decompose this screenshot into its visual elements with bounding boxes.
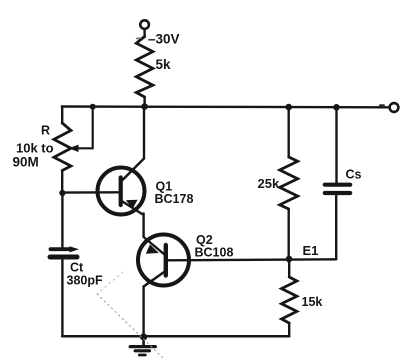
wire Cs to base wire bbox=[335, 195, 337, 259]
wire 5k to rail bbox=[143, 97, 145, 107]
node ground junction bbox=[140, 333, 147, 340]
resistor R bbox=[54, 123, 71, 171]
wire Q2 base to E1 and Cs bbox=[168, 259, 336, 260]
wire E1 to 15k bbox=[288, 259, 290, 277]
wire R bottom to base node bbox=[61, 171, 63, 194]
scan speck left of -30V wire bbox=[137, 37, 141, 39]
capacitor Cs top plate bbox=[325, 183, 350, 187]
node rail/25k junction bbox=[285, 104, 292, 111]
transistor Q2 base bar bbox=[164, 245, 168, 276]
transistor Q1 base bar bbox=[119, 178, 123, 206]
scan speck on rail near output terminal bbox=[380, 104, 384, 106]
scan artifact dotted line upper bbox=[97, 272, 123, 294]
wire rail to R top bbox=[61, 107, 63, 124]
output terminal bbox=[390, 103, 399, 112]
power terminal -30V bbox=[140, 20, 149, 29]
resistor 25k bbox=[280, 157, 298, 209]
node Q1 base junction bbox=[59, 190, 65, 196]
svg-text:Ct: Ct bbox=[70, 261, 84, 275]
wire Q2 emitter to ground rail bbox=[142, 287, 144, 338]
wiper wire of R bbox=[74, 107, 93, 149]
ground bbox=[130, 337, 155, 355]
wiper arrowhead bbox=[69, 145, 79, 152]
svg-text:E1: E1 bbox=[303, 243, 319, 258]
svg-text:5k: 5k bbox=[156, 57, 172, 72]
wire bottom ground rail bbox=[62, 335, 289, 338]
resistor 5k bbox=[136, 37, 153, 98]
scan artifact dotted line bbox=[97, 294, 163, 358]
node rail/5k junction bbox=[141, 103, 148, 110]
transistor Q1 emitter lead bbox=[123, 202, 143, 215]
capacitor Ct top plate arrow tip bbox=[70, 246, 80, 252]
transistor Q1 collector lead bbox=[123, 159, 145, 181]
svg-text:25k: 25k bbox=[258, 176, 280, 191]
wire 25k to E1 bbox=[288, 209, 290, 259]
wire base node to Q1 bbox=[62, 191, 118, 194]
node rail/Cs junction bbox=[333, 104, 340, 111]
svg-text:10k to: 10k to bbox=[16, 141, 54, 156]
node rail/wiper junction bbox=[90, 104, 96, 110]
wire terminal to 5k bbox=[143, 29, 145, 37]
svg-text:90M: 90M bbox=[13, 155, 39, 170]
wire rail to 25k bbox=[288, 107, 290, 157]
transistor Q1 circle bbox=[98, 168, 145, 215]
node E1 bbox=[286, 256, 293, 263]
svg-text:R: R bbox=[41, 124, 50, 138]
capacitor Cs bottom plate bbox=[325, 191, 350, 195]
svg-text:–30V: –30V bbox=[148, 32, 180, 47]
transistor Q1 emitter arrow bbox=[126, 200, 138, 209]
svg-text:380pF: 380pF bbox=[67, 274, 103, 288]
wire Q1 collector to rail bbox=[143, 107, 145, 159]
wire Ct to ground rail bbox=[61, 259, 63, 336]
resistor 15k bbox=[282, 277, 297, 323]
svg-text:Cs: Cs bbox=[346, 168, 362, 182]
transistor Q2 circle bbox=[138, 235, 189, 286]
transistor Q2 upper lead bbox=[144, 237, 165, 255]
wire Q1 emitter to Q2 bbox=[142, 214, 144, 237]
capacitor Ct bottom plate bbox=[50, 255, 77, 260]
wire base node to Ct bbox=[61, 193, 63, 247]
capacitor Ct top plate bbox=[51, 247, 71, 251]
wire rail to Cs bbox=[335, 107, 337, 182]
wire 15k to ground rail bbox=[288, 323, 290, 336]
transistor Q2 upper lead arrow bbox=[146, 244, 159, 253]
svg-text:BC178: BC178 bbox=[155, 192, 194, 206]
wire top rail bbox=[62, 105, 390, 108]
svg-text:15k: 15k bbox=[302, 295, 323, 309]
transistor Q2 lower lead bbox=[144, 272, 164, 287]
svg-text:BC108: BC108 bbox=[195, 246, 234, 260]
